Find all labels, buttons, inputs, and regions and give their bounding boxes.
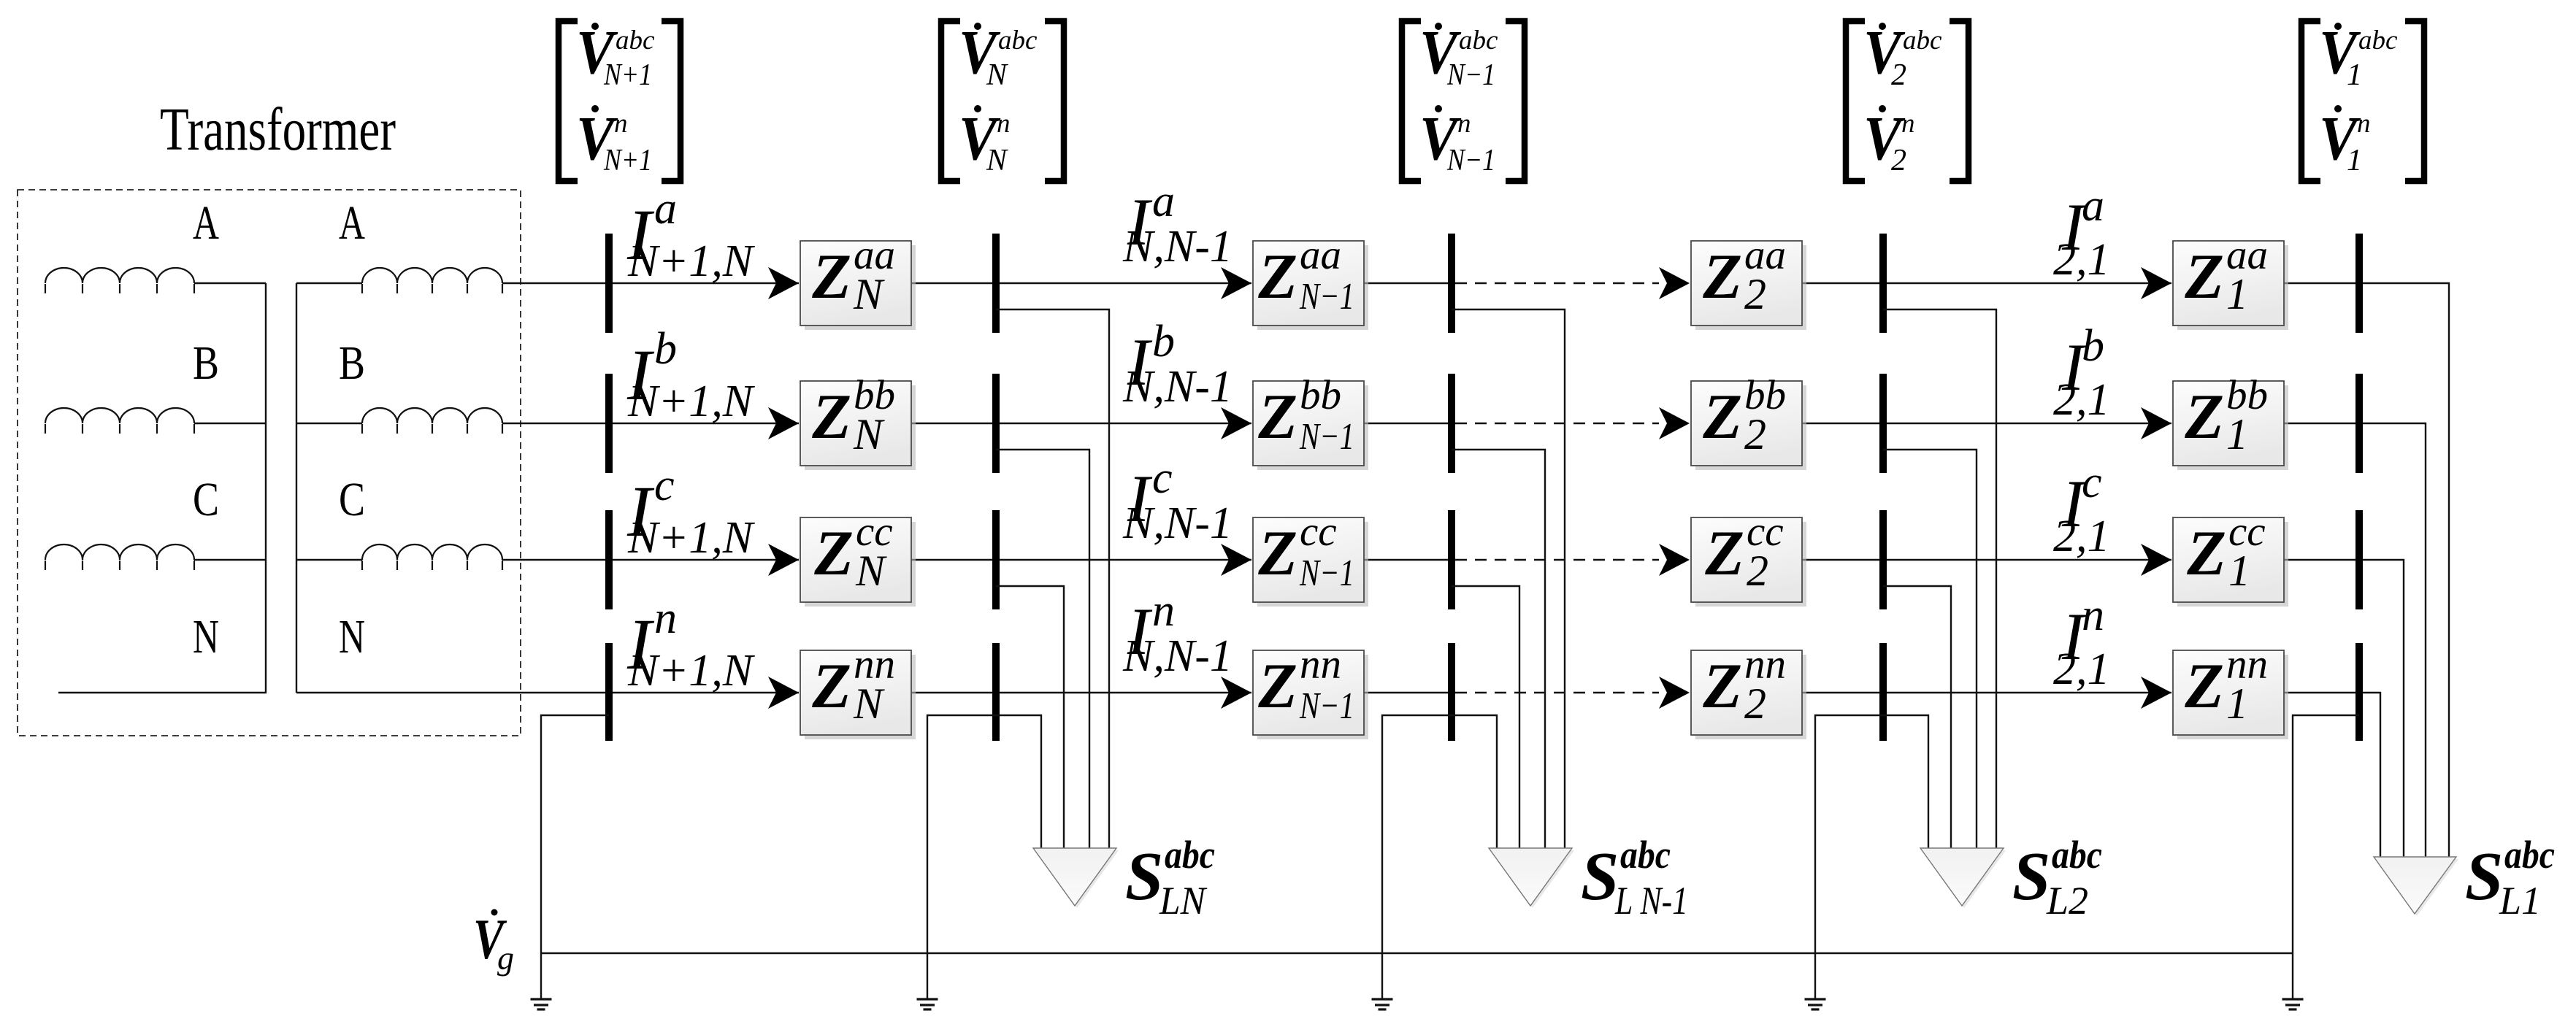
label V_N^abc bbox=[959, 17, 1038, 92]
bus N-1 phase b bar bbox=[1448, 374, 1455, 473]
svg-text:1: 1 bbox=[2226, 680, 2248, 728]
current arrow into Z_N^cc bbox=[768, 544, 799, 576]
svg-text:C: C bbox=[339, 473, 365, 526]
svg-text:N+1,N: N+1,N bbox=[627, 236, 756, 286]
label V_N-1^abc bbox=[1419, 17, 1498, 92]
wire phase a: transformer to Z_N^aa bbox=[502, 282, 799, 284]
svg-text:2,1: 2,1 bbox=[2053, 235, 2110, 285]
svg-text:Z: Z bbox=[1257, 382, 1297, 453]
wire phase a: Z_N^aa to bus N bbox=[911, 282, 1251, 284]
bus 1 phase n bar bbox=[2355, 643, 2363, 741]
svg-text:N: N bbox=[339, 610, 365, 663]
svg-text:L2: L2 bbox=[2046, 879, 2088, 923]
svg-text:2: 2 bbox=[1891, 58, 1906, 92]
load S_L1 triangle bbox=[2374, 857, 2458, 916]
neutral grounding tap at bus N+1 bbox=[541, 715, 609, 999]
svg-text:LN: LN bbox=[1159, 879, 1208, 923]
label S_L N-1^abc bbox=[1581, 833, 1688, 923]
bus 2 phase c bar bbox=[1879, 510, 1887, 609]
svg-text:c: c bbox=[1152, 453, 1173, 503]
voltage vector bracket at bus 2 bbox=[1846, 21, 1865, 181]
svg-text:n: n bbox=[1901, 109, 1915, 139]
svg-text:g: g bbox=[497, 939, 514, 977]
current arrow into Z_1^nn bbox=[2141, 677, 2171, 709]
impedance block Z_N−1^nn bbox=[1253, 642, 1368, 739]
ground symbol at bus 2 bbox=[1805, 999, 1826, 1009]
label I^b_2,1 bbox=[2053, 321, 2110, 425]
svg-text:n: n bbox=[2082, 590, 2104, 640]
svg-text:Z: Z bbox=[1704, 518, 1744, 589]
impedance block Z_N−1^cc bbox=[1253, 509, 1368, 607]
wire phase n: Z_1^nn through bus 1 down to load S_L1 bbox=[2284, 693, 2380, 857]
current arrow into Z_N^bb bbox=[768, 407, 799, 439]
label I^a_N+1,N bbox=[626, 184, 756, 286]
svg-text:B: B bbox=[193, 336, 219, 390]
ground symbol at bus 1 bbox=[2282, 999, 2304, 1009]
tap wire phase a: bus N to load S_LN bbox=[996, 309, 1109, 848]
svg-text:Z: Z bbox=[813, 518, 854, 589]
svg-text:N−1: N−1 bbox=[1299, 416, 1354, 458]
svg-text:S: S bbox=[1581, 839, 1619, 915]
svg-text:S: S bbox=[1125, 839, 1163, 915]
current arrow into Z_2^aa bbox=[1659, 267, 1690, 299]
svg-text:2: 2 bbox=[1744, 270, 1766, 318]
impedance block Z_N^nn bbox=[800, 642, 916, 739]
svg-text:N,N-1: N,N-1 bbox=[1122, 222, 1233, 272]
transformer primary winding C bbox=[45, 544, 194, 570]
label V_2^abc bbox=[1863, 17, 1942, 92]
svg-text:S: S bbox=[2012, 839, 2050, 915]
bus N-1 phase c bar bbox=[1448, 510, 1455, 609]
svg-text:N+1,N: N+1,N bbox=[627, 377, 756, 426]
label S_L1^abc bbox=[2465, 833, 2555, 923]
bus N-1 phase a bar bbox=[1448, 234, 1455, 333]
svg-text:n: n bbox=[997, 109, 1011, 139]
wire phase n: transformer to Z_N^nn bbox=[296, 692, 799, 693]
primary star-point vertical wire bbox=[265, 283, 267, 693]
impedance block Z_N^aa bbox=[800, 232, 916, 330]
svg-text:N+1,N: N+1,N bbox=[627, 513, 756, 563]
wire phase b: Z_1^bb through bus 1 down to load S_L1 bbox=[2284, 423, 2426, 857]
svg-text:abc: abc bbox=[1903, 26, 1942, 55]
label I^n_2,1 bbox=[2053, 590, 2110, 694]
svg-text:N−1: N−1 bbox=[1299, 276, 1354, 317]
svg-text:1: 1 bbox=[2347, 144, 2362, 177]
ground symbol at bus N bbox=[917, 999, 938, 1009]
label I^n_N,N-1 bbox=[1122, 586, 1233, 681]
load S_LN triangle bbox=[1033, 848, 1119, 908]
transformer primary winding A bbox=[45, 268, 194, 293]
svg-text:N−1: N−1 bbox=[1446, 58, 1495, 92]
current arrow into Z_N^nn bbox=[768, 677, 799, 709]
svg-text:Z: Z bbox=[1257, 518, 1297, 589]
label S_LN^abc bbox=[1125, 833, 1215, 923]
svg-text:Transformer: Transformer bbox=[160, 96, 396, 163]
bus 1 phase c bar bbox=[2355, 510, 2363, 609]
svg-text:2,1: 2,1 bbox=[2053, 644, 2110, 694]
bus 2 phase b bar bbox=[1879, 374, 1887, 473]
svg-text:abc: abc bbox=[2504, 833, 2555, 877]
svg-text:n: n bbox=[1152, 586, 1175, 636]
svg-text:B: B bbox=[339, 336, 365, 390]
svg-text:abc: abc bbox=[616, 26, 655, 55]
label I^b_N+1,N bbox=[626, 324, 756, 426]
svg-text:Z: Z bbox=[1702, 242, 1742, 312]
voltage vector bracket at bus 1 bbox=[2301, 21, 2320, 181]
svg-text:N: N bbox=[855, 547, 887, 595]
wire secondary star point to winding C bbox=[296, 559, 362, 561]
svg-text:abc: abc bbox=[1165, 833, 1215, 877]
load S_L N-1 triangle bbox=[1489, 848, 1574, 908]
voltage vector bracket at bus N bbox=[941, 21, 960, 181]
transformer dashed enclosure bbox=[18, 190, 521, 736]
tap wire phase b: bus N-1 to load S_L N-1 bbox=[1452, 450, 1545, 848]
svg-text:n: n bbox=[2357, 109, 2371, 139]
svg-text:2: 2 bbox=[1891, 144, 1906, 177]
tap wire phase n: bus N-1 to load S_L N-1 bbox=[1452, 715, 1497, 848]
wire phase b: Z_2^bb to bus 2 bbox=[1802, 423, 2171, 424]
wire primary winding B to star point bbox=[194, 423, 266, 424]
bus N+1 phase c bar bbox=[605, 510, 613, 609]
svg-text:A: A bbox=[339, 196, 365, 250]
label V_1^abc bbox=[2319, 17, 2398, 92]
label V_N^n bbox=[959, 103, 1011, 177]
wire phase n: Z_2^nn to bus 2 bbox=[1802, 692, 2171, 693]
svg-text:a: a bbox=[654, 184, 677, 234]
wire phase b: transformer to Z_N^bb bbox=[502, 423, 799, 424]
label I^a_N,N-1 bbox=[1122, 177, 1233, 272]
ground symbol at bus N-1 bbox=[1372, 999, 1393, 1009]
bus 1 phase a bar bbox=[2355, 234, 2363, 333]
svg-text:Z: Z bbox=[1257, 242, 1297, 312]
label V_N+1^n bbox=[576, 103, 652, 177]
label I^n_N+1,N bbox=[626, 593, 756, 696]
wire phase n: Z_N^nn to bus N bbox=[911, 692, 1251, 693]
svg-text:2,1: 2,1 bbox=[2053, 375, 2110, 425]
wire primary winding C to star point bbox=[194, 559, 266, 561]
label I^b_N,N-1 bbox=[1122, 317, 1233, 412]
svg-text:abc: abc bbox=[1620, 833, 1671, 877]
svg-text:a: a bbox=[1152, 177, 1175, 226]
tap wire phase a: bus N-1 to load S_L N-1 bbox=[1452, 309, 1565, 848]
impedance block Z_2^cc bbox=[1691, 509, 1806, 607]
secondary star-point vertical wire bbox=[296, 283, 297, 693]
bus 2 phase a bar bbox=[1879, 234, 1887, 333]
dashed wire phase a: bus N-1 to Z_2^aa (omitted feeders) bbox=[1455, 282, 1659, 284]
tap wire phase c: bus 2 to load S_L2 bbox=[1883, 586, 1951, 848]
svg-text:N: N bbox=[853, 270, 885, 318]
svg-text:n: n bbox=[1457, 109, 1471, 139]
bus N+1 phase b bar bbox=[605, 374, 613, 473]
svg-text:N: N bbox=[853, 410, 885, 458]
svg-text:N+1,N: N+1,N bbox=[627, 646, 756, 696]
wire phase c: Z_2^cc to bus 2 bbox=[1802, 559, 2171, 561]
impedance block Z_2^bb bbox=[1691, 372, 1806, 470]
label I^c_2,1 bbox=[2053, 458, 2110, 561]
transformer secondary winding A bbox=[362, 268, 502, 293]
svg-text:N+1: N+1 bbox=[603, 144, 652, 177]
transformer primary winding B bbox=[45, 408, 194, 434]
svg-text:abc: abc bbox=[1459, 26, 1498, 55]
impedance block Z_N−1^bb bbox=[1253, 372, 1368, 470]
wire phase c: Z_N-1^cc to bus N-1 bbox=[1364, 559, 1452, 561]
svg-text:Z: Z bbox=[2184, 651, 2224, 722]
svg-text:Z: Z bbox=[2184, 242, 2224, 312]
current arrow into Z_N−1^bb bbox=[1221, 407, 1251, 439]
current arrow into Z_2^bb bbox=[1659, 407, 1690, 439]
impedance block Z_2^nn bbox=[1691, 642, 1806, 739]
svg-text:1: 1 bbox=[2228, 547, 2250, 595]
svg-text:N: N bbox=[986, 144, 1008, 177]
impedance block Z_2^aa bbox=[1691, 232, 1806, 330]
label I^a_2,1 bbox=[2053, 181, 2110, 285]
svg-text:b: b bbox=[1152, 317, 1175, 366]
svg-text:Z: Z bbox=[811, 651, 851, 722]
ground bus wire V_g bbox=[541, 952, 2293, 954]
svg-text:L N-1: L N-1 bbox=[1614, 879, 1688, 923]
svg-text:N−1: N−1 bbox=[1446, 144, 1495, 177]
label I^c_N,N-1 bbox=[1122, 453, 1233, 548]
impedance block Z_1^nn bbox=[2173, 642, 2288, 739]
wire secondary star point to winding A bbox=[296, 282, 362, 284]
impedance block Z_N^bb bbox=[800, 372, 916, 470]
transformer secondary winding B bbox=[362, 408, 502, 434]
tap wire phase b: bus 2 to load S_L2 bbox=[1883, 450, 1977, 848]
bus 1 phase b bar bbox=[2355, 374, 2363, 473]
ground symbol at bus N+1 bbox=[531, 999, 552, 1009]
svg-text:Z: Z bbox=[811, 382, 851, 453]
bus N+1 phase n bar bbox=[605, 643, 613, 741]
tap wire phase n: bus N to load S_LN bbox=[996, 715, 1041, 848]
svg-text:2: 2 bbox=[1744, 410, 1766, 458]
svg-text:N,N-1: N,N-1 bbox=[1122, 362, 1233, 412]
dashed wire phase c: bus N-1 to Z_2^cc (omitted feeders) bbox=[1455, 559, 1659, 561]
wire primary winding A to star point bbox=[194, 282, 266, 284]
svg-text:N: N bbox=[986, 58, 1008, 92]
wire secondary star point to winding B bbox=[296, 423, 362, 424]
wire phase a: Z_1^aa through bus 1 down to load S_L1 bbox=[2284, 283, 2449, 857]
svg-text:N+1: N+1 bbox=[603, 58, 652, 92]
neutral grounding tap at bus N bbox=[927, 715, 996, 999]
impedance block Z_1^aa bbox=[2173, 232, 2288, 330]
bus 2 phase n bar bbox=[1879, 643, 1887, 741]
svg-text:c: c bbox=[654, 461, 675, 510]
bus N phase n bar bbox=[992, 643, 1000, 741]
svg-text:S: S bbox=[2465, 839, 2503, 915]
svg-text:A: A bbox=[193, 196, 219, 250]
current arrow into Z_1^aa bbox=[2141, 267, 2171, 299]
svg-text:1: 1 bbox=[2226, 270, 2248, 318]
svg-text:N,N-1: N,N-1 bbox=[1122, 498, 1233, 548]
svg-text:abc: abc bbox=[2358, 26, 2398, 55]
bus N-1 phase n bar bbox=[1448, 643, 1455, 741]
wire phase b: Z_N^bb to bus N bbox=[911, 423, 1251, 424]
svg-text:N−1: N−1 bbox=[1299, 685, 1354, 727]
svg-text:N: N bbox=[853, 680, 885, 728]
dashed wire phase b: bus N-1 to Z_2^bb (omitted feeders) bbox=[1455, 423, 1659, 424]
svg-text:L1: L1 bbox=[2499, 879, 2541, 923]
svg-text:bb: bb bbox=[1300, 372, 1341, 418]
impedance block Z_N^cc bbox=[800, 509, 916, 607]
svg-text:abc: abc bbox=[998, 26, 1038, 55]
neutral grounding tap at bus N-1 bbox=[1382, 715, 1452, 999]
svg-text:aa: aa bbox=[1300, 232, 1341, 278]
neutral grounding tap at bus 1 bbox=[2293, 715, 2359, 999]
svg-text:Z: Z bbox=[2184, 382, 2224, 453]
current arrow into Z_1^cc bbox=[2141, 544, 2171, 576]
wire phase b: Z_N-1^bb to bus N-1 bbox=[1364, 423, 1452, 424]
svg-text:2: 2 bbox=[1744, 680, 1766, 728]
label V_2^n bbox=[1863, 103, 1915, 177]
svg-text:Z: Z bbox=[1702, 651, 1742, 722]
impedance block Z_1^bb bbox=[2173, 372, 2288, 470]
svg-text:Z: Z bbox=[1702, 382, 1742, 453]
impedance block Z_1^cc bbox=[2173, 509, 2288, 607]
svg-text:nn: nn bbox=[1300, 642, 1341, 688]
svg-text:b: b bbox=[654, 324, 677, 374]
bus N phase c bar bbox=[992, 510, 1000, 609]
svg-text:1: 1 bbox=[2226, 410, 2248, 458]
current arrow into Z_N^aa bbox=[768, 267, 799, 299]
load S_L2 triangle bbox=[1920, 848, 2006, 908]
svg-text:a: a bbox=[2082, 181, 2104, 231]
current arrow into Z_2^cc bbox=[1659, 544, 1690, 576]
bus N+1 phase a bar bbox=[605, 234, 613, 333]
wire phase c: Z_1^cc through bus 1 down to load S_L1 bbox=[2284, 560, 2404, 857]
wire phase c: transformer to Z_N^cc bbox=[502, 559, 799, 561]
label V_N+1^abc bbox=[576, 17, 655, 92]
label V_N-1^n bbox=[1419, 103, 1495, 177]
label S_L2^abc bbox=[2012, 833, 2102, 923]
current arrow into Z_N−1^aa bbox=[1221, 267, 1251, 299]
current arrow into Z_N−1^cc bbox=[1221, 544, 1251, 576]
svg-text:N−1: N−1 bbox=[1299, 553, 1354, 594]
bus N phase b bar bbox=[992, 374, 1000, 473]
wire phase n: Z_N-1^nn to bus N-1 bbox=[1364, 692, 1452, 693]
svg-text:cc: cc bbox=[1300, 509, 1337, 555]
wire phase a: Z_2^aa to bus 2 bbox=[1802, 282, 2171, 284]
wire phase a: Z_N-1^aa to bus N-1 bbox=[1364, 282, 1452, 284]
tap wire phase a: bus 2 to load S_L2 bbox=[1883, 309, 1996, 848]
label V_1^n bbox=[2319, 103, 2371, 177]
svg-text:c: c bbox=[2082, 458, 2102, 507]
impedance block Z_N−1^aa bbox=[1253, 232, 1368, 330]
svg-text:n: n bbox=[614, 109, 628, 139]
svg-text:N: N bbox=[193, 610, 219, 663]
current arrow into Z_N−1^nn bbox=[1221, 677, 1251, 709]
tap wire phase c: bus N-1 to load S_L N-1 bbox=[1452, 586, 1519, 848]
label I^c_N+1,N bbox=[626, 461, 756, 563]
voltage vector bracket at bus N+1 bbox=[559, 21, 578, 181]
svg-text:C: C bbox=[193, 473, 219, 526]
svg-text:2,1: 2,1 bbox=[2053, 512, 2110, 561]
neutral grounding tap at bus 2 bbox=[1815, 715, 1883, 999]
tap wire phase n: bus 2 to load S_L2 bbox=[1883, 715, 1928, 848]
transformer secondary winding C bbox=[362, 544, 502, 570]
svg-text:Z: Z bbox=[1257, 651, 1297, 722]
current arrow into Z_1^bb bbox=[2141, 407, 2171, 439]
current arrow into Z_2^nn bbox=[1659, 677, 1690, 709]
tap wire phase b: bus N to load S_LN bbox=[996, 450, 1089, 848]
bus N phase a bar bbox=[992, 234, 1000, 333]
label V_g bbox=[473, 907, 514, 977]
svg-text:2: 2 bbox=[1747, 547, 1768, 595]
primary neutral wire N bbox=[58, 692, 267, 693]
svg-text:Z: Z bbox=[2186, 518, 2226, 589]
wire phase c: Z_N^cc to bus N bbox=[911, 559, 1251, 561]
svg-text:n: n bbox=[654, 593, 677, 643]
svg-text:Z: Z bbox=[811, 242, 851, 312]
svg-text:1: 1 bbox=[2347, 58, 2362, 92]
svg-text:abc: abc bbox=[2052, 833, 2102, 877]
svg-text:b: b bbox=[2082, 321, 2104, 371]
svg-text:N,N-1: N,N-1 bbox=[1122, 631, 1233, 681]
tap wire phase c: bus N to load S_LN bbox=[996, 586, 1064, 848]
dashed wire phase n: bus N-1 to Z_2^nn (omitted feeders) bbox=[1455, 692, 1659, 693]
voltage vector bracket at bus N-1 bbox=[1402, 21, 1421, 181]
